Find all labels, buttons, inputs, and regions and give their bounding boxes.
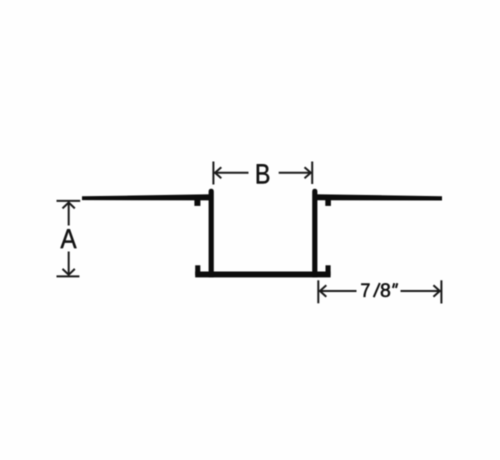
left mud flange (tapered wing)	[82, 194, 212, 200]
dimension 7/8 line left segment	[320, 290, 357, 292]
dimension A top extension line	[57, 200, 81, 202]
right wall	[312, 189, 317, 278]
dimension A line top segment	[68, 203, 70, 226]
dimension A top arrowhead	[63, 203, 75, 209]
left wall	[209, 189, 214, 278]
dimension A line bottom segment	[68, 252, 70, 275]
dimension B left arrowhead	[215, 167, 221, 178]
dimension 7/8 left arrowhead	[320, 285, 326, 296]
left foot lip	[195, 265, 200, 275]
right foot lip	[326, 265, 331, 275]
label A	[60, 229, 76, 248]
label 7/8 digit 7	[361, 284, 369, 297]
dimension B right arrowhead	[305, 167, 311, 178]
right mud flange (tapered wing)	[314, 194, 442, 200]
left locking nub	[194, 199, 200, 206]
dimension 7/8 line right segment	[401, 290, 440, 292]
dimension 7/8 right extension line	[440, 280, 442, 303]
dimension 7/8 right arrowhead	[433, 285, 439, 296]
label 7/8 slash	[374, 283, 380, 297]
dimension B left extension line	[212, 162, 214, 185]
dimension A bottom extension line	[57, 275, 80, 277]
label 7/8 inch mark 2	[396, 283, 397, 288]
dimension 7/8 left extension line	[317, 280, 319, 303]
dimension B line right segment	[279, 172, 311, 174]
dimension B right extension line	[311, 162, 313, 185]
right locking nub	[325, 200, 331, 206]
label 7/8 inch mark 1	[393, 283, 394, 288]
label 7/8 digit 8	[381, 283, 390, 297]
label B	[257, 164, 269, 183]
dimension B line left segment	[215, 172, 249, 174]
dimension A bottom arrowhead	[63, 269, 75, 275]
bottom channel bar	[195, 272, 330, 278]
